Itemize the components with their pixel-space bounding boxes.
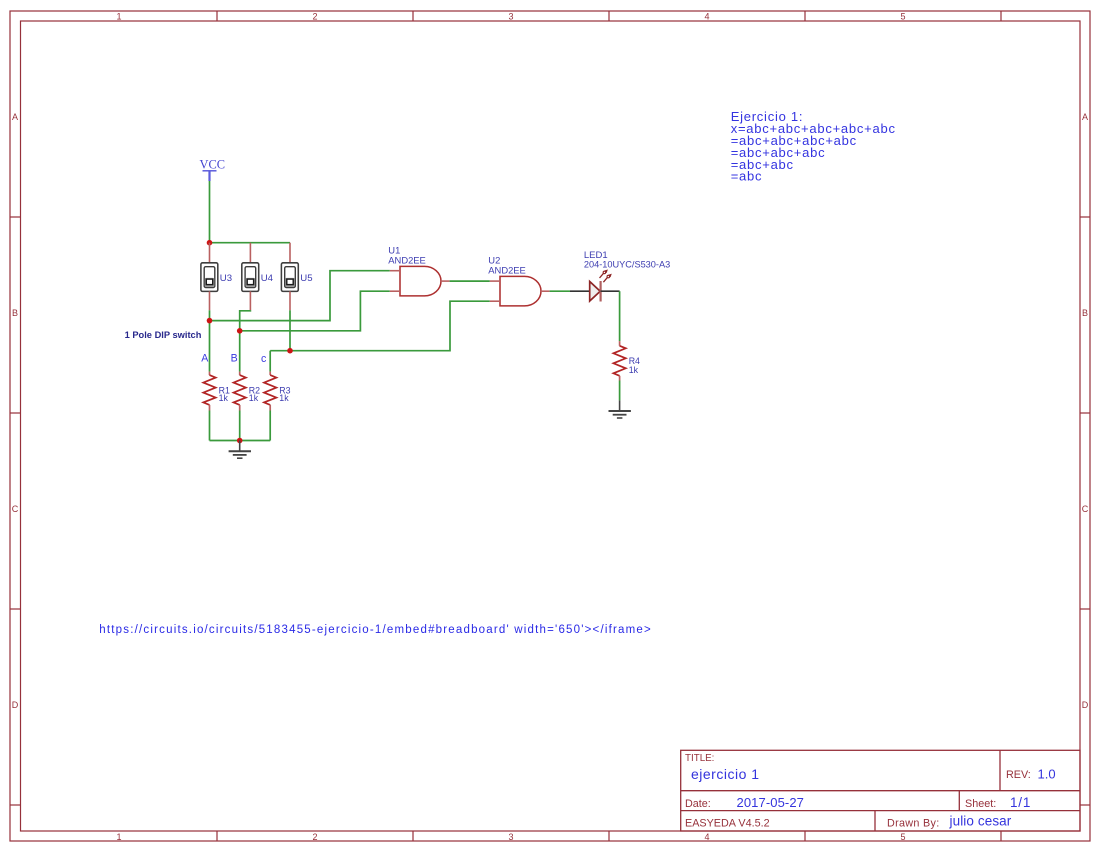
svg-text:VCC: VCC xyxy=(200,158,225,172)
svg-text:3: 3 xyxy=(508,12,513,22)
wire node c to U2 input 2 xyxy=(270,301,490,351)
svg-text:Date:: Date: xyxy=(685,798,711,810)
svg-text:2017-05-27: 2017-05-27 xyxy=(737,795,805,810)
pin U4.2 xyxy=(249,291,251,310)
wire R2 bottom xyxy=(239,411,241,441)
svg-text:julio cesar: julio cesar xyxy=(949,814,1012,829)
svg-text:1k: 1k xyxy=(279,393,289,403)
svg-text:C: C xyxy=(12,504,19,514)
wire U5 down to node c xyxy=(289,310,291,350)
LED LED1 xyxy=(584,250,670,301)
junction VCC rail xyxy=(207,240,213,246)
svg-text:1: 1 xyxy=(116,12,121,22)
svg-text:REV:: REV: xyxy=(1006,769,1031,781)
svg-text:B: B xyxy=(12,308,18,318)
junction node c xyxy=(287,348,293,354)
svg-text:4: 4 xyxy=(704,832,709,842)
svg-text:c: c xyxy=(261,353,267,365)
svg-text:1k: 1k xyxy=(219,393,229,403)
wire U1 output to U2 input 1 xyxy=(450,280,490,282)
svg-text:1k: 1k xyxy=(249,393,259,403)
pin U3.2 xyxy=(209,291,211,310)
wire ground rail xyxy=(210,440,271,442)
svg-text:1/1: 1/1 xyxy=(1010,795,1031,810)
svg-text:C: C xyxy=(1082,504,1089,514)
junction node B xyxy=(237,328,243,334)
wire VCC down to rail xyxy=(209,181,211,243)
wire top rail xyxy=(210,242,291,244)
svg-text:Sheet:: Sheet: xyxy=(965,798,996,810)
svg-text:TITLE:: TITLE: xyxy=(685,753,714,764)
pin U3.1 xyxy=(209,243,211,263)
ground symbol (resistor rail) xyxy=(229,441,251,459)
svg-text:D: D xyxy=(1082,700,1089,710)
svg-text:2: 2 xyxy=(312,832,317,842)
svg-text:EASYEDA V4.5.2: EASYEDA V4.5.2 xyxy=(685,817,770,829)
op-amp U1 (AND gate AND2EE) xyxy=(388,244,449,296)
svg-text:A: A xyxy=(201,352,209,364)
svg-text:https://circuits.io/circuits/5: https://circuits.io/circuits/5183455-eje… xyxy=(99,624,652,636)
pin U5.2 xyxy=(289,291,291,310)
svg-text:1: 1 xyxy=(116,832,121,842)
wire R4 to ground xyxy=(619,381,621,401)
switch U5 xyxy=(281,263,312,292)
svg-text:D: D xyxy=(12,700,19,710)
switch U3 xyxy=(201,263,232,292)
resistor R3 xyxy=(264,372,291,411)
svg-text:A: A xyxy=(12,112,18,122)
ground symbol (R4) xyxy=(609,400,631,418)
svg-text:U3: U3 xyxy=(220,273,232,284)
wire node A to U1 input 1 xyxy=(210,271,390,321)
svg-text:3: 3 xyxy=(508,832,513,842)
wire R3 bottom xyxy=(269,411,271,441)
net VCC power symbol xyxy=(200,158,225,182)
junction ground rail xyxy=(237,438,243,444)
wire down to R4 xyxy=(619,291,621,341)
pin U4.1 xyxy=(249,243,251,263)
svg-text:Drawn By:: Drawn By: xyxy=(887,817,940,829)
wire U3 to node A xyxy=(209,310,211,320)
svg-text:B: B xyxy=(231,352,238,364)
wire U2 output xyxy=(550,290,570,292)
svg-text:ejercicio 1: ejercicio 1 xyxy=(691,766,760,782)
annotation Ejercicio formula text xyxy=(731,109,896,184)
svg-text:1k: 1k xyxy=(629,365,639,375)
wire node B to U1 input 2 xyxy=(240,291,390,331)
wire R1 bottom xyxy=(209,411,211,441)
svg-text:5: 5 xyxy=(900,12,905,22)
wire LED cathode to corner xyxy=(601,290,620,292)
pin U5.1 xyxy=(289,243,291,263)
svg-text:4: 4 xyxy=(704,12,709,22)
svg-text:U4: U4 xyxy=(261,273,274,284)
title block xyxy=(681,750,1080,831)
op-amp U2 (AND gate AND2EE) xyxy=(488,254,549,306)
svg-text:U5: U5 xyxy=(300,273,312,284)
svg-text:2: 2 xyxy=(312,12,317,22)
wire to LED anode xyxy=(570,290,590,292)
svg-text:204-10UYC/S530-A3: 204-10UYC/S530-A3 xyxy=(584,260,670,270)
resistor R2 xyxy=(234,372,261,411)
svg-text:AND2EE: AND2EE xyxy=(488,265,526,276)
svg-text:1 Pole DIP switch: 1 Pole DIP switch xyxy=(125,330,202,340)
svg-text:5: 5 xyxy=(900,832,905,842)
resistor R4 xyxy=(613,341,640,380)
wire node B down to R2 xyxy=(239,331,241,372)
svg-text:1.0: 1.0 xyxy=(1038,767,1056,782)
junction node A xyxy=(207,318,213,324)
resistor R1 xyxy=(203,372,230,411)
wire node A down to R1 xyxy=(209,321,211,372)
switch U4 xyxy=(242,263,274,292)
svg-text:B: B xyxy=(1082,308,1088,318)
svg-text:=abc: =abc xyxy=(731,169,763,184)
wire node c down to R3 xyxy=(269,351,271,372)
svg-text:A: A xyxy=(1082,112,1088,122)
wire U4 jog to node B xyxy=(240,310,251,331)
svg-text:AND2EE: AND2EE xyxy=(388,255,426,266)
